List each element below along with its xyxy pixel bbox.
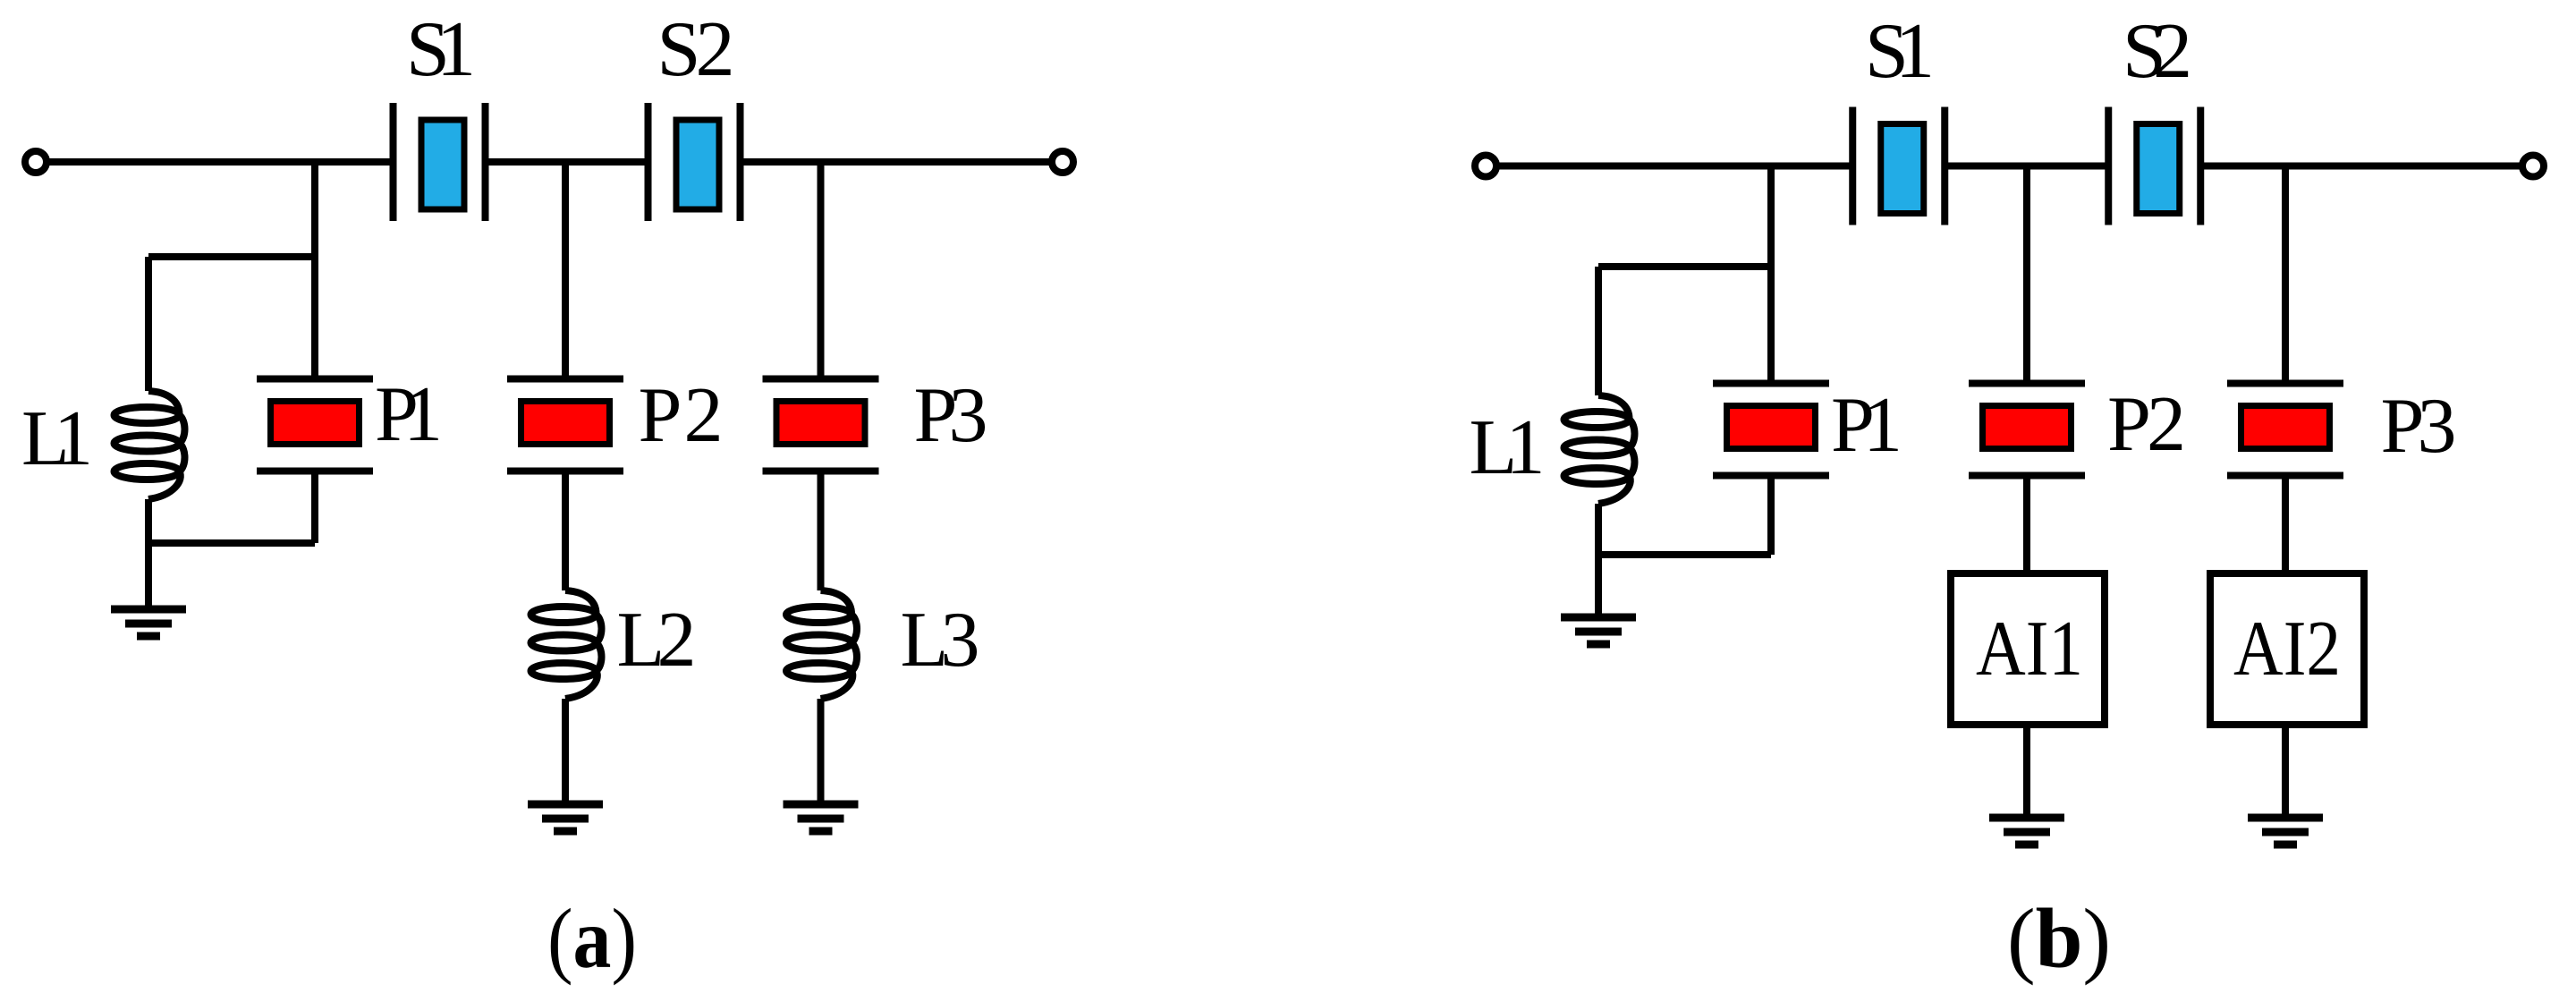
svg-text:AI2: AI2 <box>2233 606 2341 692</box>
svg-text:(a): (a) <box>547 891 637 986</box>
svg-text:P2: P2 <box>2107 381 2186 468</box>
svg-text:P2: P2 <box>639 372 724 459</box>
svg-text:S2: S2 <box>2123 8 2192 95</box>
svg-text:(b): (b) <box>2007 891 2111 986</box>
svg-text:S1: S1 <box>406 6 476 93</box>
svg-text:P3: P3 <box>914 372 988 459</box>
svg-text:L1: L1 <box>21 395 93 482</box>
svg-text:P1: P1 <box>1831 382 1902 469</box>
svg-text:L1: L1 <box>1470 404 1546 491</box>
svg-text:P3: P3 <box>2381 383 2457 470</box>
svg-text:AI1: AI1 <box>1976 606 2083 692</box>
svg-text:S2: S2 <box>657 6 735 93</box>
svg-text:L2: L2 <box>617 597 697 684</box>
svg-text:L3: L3 <box>901 597 980 684</box>
svg-text:P1: P1 <box>375 371 443 458</box>
svg-text:S1: S1 <box>1865 8 1935 95</box>
